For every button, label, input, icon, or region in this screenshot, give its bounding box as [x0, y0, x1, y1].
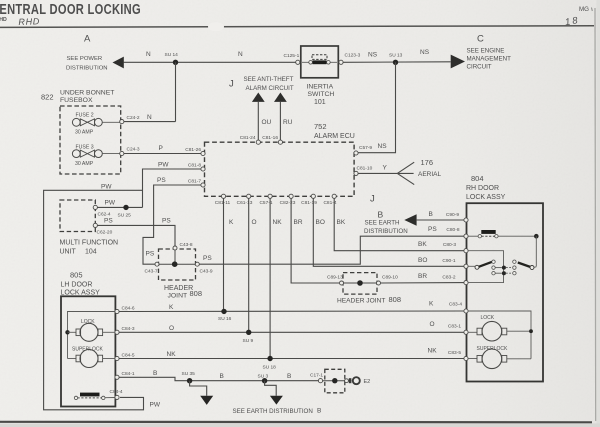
svg-text:C84-3: C84-3	[122, 326, 135, 332]
pin C24-3	[120, 147, 140, 156]
pin C83-1	[448, 324, 468, 335]
LH interior K rail	[65, 312, 115, 359]
svg-text:PS: PS	[104, 217, 113, 224]
svg-text:BK: BK	[418, 241, 427, 248]
pin C84-4	[110, 389, 123, 400]
svg-text:BO: BO	[418, 257, 427, 264]
svg-text:NS: NS	[378, 143, 388, 150]
svg-text:K: K	[169, 304, 174, 311]
svg-text:805: 805	[70, 271, 83, 280]
svg-text:C90-9: C90-9	[446, 212, 459, 218]
svg-text:C83-5: C83-5	[448, 350, 461, 356]
svg-text:C83-4: C83-4	[449, 302, 462, 308]
pin C83-4	[449, 302, 468, 314]
wire BO ECU to RH door	[313, 198, 464, 266]
svg-text:CIRCUIT: CIRCUIT	[467, 64, 492, 71]
svg-text:PS: PS	[203, 255, 212, 262]
ground SU35 branch	[190, 381, 214, 405]
arrow OU to alarm circuit	[252, 93, 272, 141]
svg-text:SWITCH: SWITCH	[308, 91, 335, 98]
svg-text:SEE EARTH DISTRIBUTION: SEE EARTH DISTRIBUTION	[233, 408, 313, 415]
see earth distribution bottom label	[233, 408, 322, 415]
node J see anti-theft alarm	[229, 76, 294, 92]
svg-text:C80-8: C80-8	[446, 227, 459, 233]
svg-text:MANAGEMENT: MANAGEMENT	[467, 56, 512, 63]
svg-text:101: 101	[314, 99, 326, 106]
svg-text:UNDER BONNET: UNDER BONNET	[60, 90, 114, 97]
svg-text:OU: OU	[262, 119, 272, 126]
svg-text:DISTRIBUTION: DISTRIBUTION	[364, 228, 408, 235]
svg-text:C: C	[477, 33, 484, 44]
svg-text:LH DOOR: LH DOOR	[61, 282, 93, 289]
svg-text:B: B	[429, 211, 433, 218]
node C see engine management	[467, 33, 512, 70]
RH interior switch left	[468, 260, 495, 275]
splice SU3	[258, 373, 269, 383]
fuse 3 30A	[72, 145, 120, 168]
wire PW MFU to SU25	[97, 199, 142, 207]
pin C81-7	[188, 179, 205, 188]
arrow to earth distribution	[404, 214, 416, 225]
pin C43-8	[173, 242, 193, 250]
svg-text:Y: Y	[383, 165, 388, 172]
page right edge	[595, 0, 600, 427]
svg-text:O: O	[169, 325, 174, 332]
wire PW left branch	[44, 183, 161, 409]
header rule line	[0, 22, 594, 31]
svg-text:B: B	[317, 408, 321, 415]
svg-text:C81-8: C81-8	[188, 163, 201, 169]
wire O row	[119, 325, 464, 333]
RH interior PS track element	[468, 230, 536, 238]
RH interior switch links	[495, 266, 512, 276]
svg-text:C81-16: C81-16	[262, 135, 278, 141]
aerial 176 symbol	[397, 158, 441, 185]
RH interior BK-BR loop	[468, 251, 504, 283]
wire B earth row	[119, 370, 318, 381]
header joint 2 splice dot	[357, 280, 363, 286]
svg-text:RH DOOR: RH DOOR	[466, 185, 499, 192]
handwritten 18	[564, 15, 580, 28]
svg-text:C81-24: C81-24	[240, 135, 256, 141]
svg-text:18: 18	[564, 15, 580, 28]
svg-text:FUSE 2: FUSE 2	[76, 113, 94, 119]
wire Y to aerial	[358, 165, 397, 174]
pin C81-24	[240, 135, 261, 144]
svg-text:PW: PW	[105, 199, 116, 206]
alarm ECU 752 box	[205, 122, 355, 196]
ECU bottom pin C61-13	[237, 194, 253, 206]
pin C43-7	[145, 262, 160, 274]
svg-text:SU 35: SU 35	[182, 371, 196, 377]
svg-text:B: B	[378, 209, 384, 219]
svg-text:C82-23: C82-23	[280, 200, 296, 206]
svg-text:K: K	[429, 301, 434, 308]
svg-text:LOCK ASSY: LOCK ASSY	[466, 194, 506, 201]
RH door lock assy 804 box	[466, 174, 543, 382]
inertia switch element	[309, 55, 330, 64]
earth stud E2 box	[323, 369, 352, 393]
svg-text:C84-5: C84-5	[122, 352, 135, 358]
node J lower	[370, 194, 375, 205]
svg-text:B: B	[153, 370, 157, 377]
svg-text:C123-3: C123-3	[345, 53, 361, 59]
pin C80-3	[443, 242, 468, 253]
svg-text:PS: PS	[162, 218, 171, 225]
wire PS ECU to header joint	[143, 177, 201, 264]
pin C57-9	[354, 143, 387, 155]
MG page mark	[579, 6, 592, 13]
ECU bottom pin C82-23	[280, 194, 296, 206]
pin C84-5	[115, 352, 135, 360]
svg-text:SEE ENGINE: SEE ENGINE	[467, 48, 505, 55]
ECU bottom pin C81-4	[323, 194, 336, 206]
svg-text:PS: PS	[157, 177, 166, 184]
pin C89-13	[327, 275, 344, 286]
RH interior K rail	[468, 311, 533, 359]
svg-text:HEADER JOINT: HEADER JOINT	[337, 298, 385, 305]
wire O ECU to SU9	[249, 198, 257, 332]
pin C17-1	[310, 372, 323, 383]
page bottom edge	[0, 422, 600, 427]
pin C24-2	[120, 115, 140, 124]
wire BR header joint 2 to RH door	[381, 273, 465, 283]
RH lock motor	[468, 315, 531, 341]
splice SU18	[263, 356, 277, 371]
pin C81-26	[185, 147, 205, 156]
svg-text:SU 16: SU 16	[218, 316, 232, 322]
svg-text:J: J	[370, 194, 375, 205]
svg-text:RHD: RHD	[0, 17, 7, 23]
earth eyelet E2	[349, 377, 370, 385]
inertia switch label	[307, 84, 335, 107]
pin C84-1	[115, 371, 135, 379]
svg-text:C81-4: C81-4	[323, 200, 336, 206]
svg-text:BK: BK	[337, 219, 346, 226]
ECU bottom pin C81-19	[301, 194, 317, 206]
pin C123-3	[339, 53, 361, 65]
svg-text:30 AMP: 30 AMP	[75, 161, 94, 167]
pin C90-1	[442, 258, 468, 268]
svg-text:NS: NS	[420, 49, 430, 56]
svg-text:C84-1: C84-1	[122, 371, 135, 377]
header joint 808 left box	[159, 249, 203, 300]
subtitle RHD printed	[0, 17, 7, 23]
svg-text:P: P	[159, 145, 163, 152]
pin C62-20	[93, 223, 112, 235]
pin C81-16	[262, 135, 282, 144]
svg-text:C84-6: C84-6	[122, 305, 135, 311]
svg-text:O: O	[430, 321, 435, 328]
svg-text:PW: PW	[150, 402, 161, 409]
svg-text:SU 25: SU 25	[118, 213, 132, 219]
svg-text:SEE ANTI-THEFT: SEE ANTI-THEFT	[244, 76, 294, 83]
pin C84-3	[115, 326, 135, 334]
svg-text:822: 822	[41, 93, 54, 102]
svg-text:N: N	[238, 51, 243, 58]
splice SU13	[389, 53, 403, 66]
wire K row	[119, 304, 464, 312]
svg-text:MULTI FUNCTION: MULTI FUNCTION	[60, 240, 119, 247]
svg-text:BO: BO	[316, 219, 325, 226]
svg-text:808: 808	[190, 289, 203, 298]
LH superlock motor	[68, 347, 116, 368]
splice SU16	[218, 309, 232, 322]
svg-text:SEE POWER: SEE POWER	[67, 56, 103, 62]
wire BR ECU to header joint 2	[291, 198, 339, 283]
svg-text:BR: BR	[294, 219, 303, 226]
multi function unit 104 box	[60, 200, 119, 256]
svg-text:C17-1: C17-1	[310, 372, 323, 378]
svg-text:B: B	[220, 373, 224, 380]
pin C83-2	[442, 274, 468, 284]
LH door lock assy 805 box	[61, 271, 116, 407]
svg-text:176: 176	[421, 158, 434, 167]
svg-text:C43-9: C43-9	[200, 269, 213, 275]
svg-text:C81-19: C81-19	[301, 200, 317, 206]
svg-text:FUSEBOX: FUSEBOX	[60, 97, 93, 104]
svg-text:C62-20: C62-20	[97, 229, 113, 235]
svg-text:SU 9: SU 9	[243, 338, 254, 344]
svg-text:C125-1: C125-1	[284, 53, 300, 59]
wire NS drop to ECU C57-9	[358, 62, 396, 152]
svg-text:C24-2: C24-2	[127, 115, 140, 121]
pin C81-10	[354, 166, 373, 176]
wire N from fuse 2	[124, 114, 176, 122]
wire P fuse3 to ECU	[124, 145, 202, 154]
inertia switch 101 box	[301, 46, 339, 78]
svg-text:C61-13: C61-13	[237, 200, 253, 206]
wire NS	[343, 49, 451, 62]
under bonnet fusebox 822	[41, 90, 121, 175]
pin C90-9	[446, 212, 468, 222]
wire N drop to fusebox	[175, 62, 177, 121]
svg-text:E2: E2	[364, 379, 371, 385]
svg-text:J: J	[229, 78, 234, 89]
svg-text:C81-26: C81-26	[185, 147, 201, 153]
node A see power distribution	[66, 33, 108, 71]
wire NK row	[119, 351, 464, 359]
svg-text:C57-9: C57-9	[359, 145, 372, 151]
svg-text:FUSE 3: FUSE 3	[76, 145, 94, 151]
svg-text:C81-10: C81-10	[357, 166, 373, 172]
wire BK ECU to RH door	[334, 198, 464, 250]
svg-text:C43-8: C43-8	[180, 242, 193, 248]
svg-text:C89-13: C89-13	[327, 275, 343, 281]
pin C80-8	[446, 227, 468, 238]
svg-text:NK: NK	[428, 348, 438, 355]
header joint 1 splice dot	[172, 261, 178, 267]
svg-text:CENTRAL DOOR LOCKING: CENTRAL DOOR LOCKING	[0, 2, 141, 18]
LH lock motor	[68, 319, 116, 341]
ground SU3 branch	[265, 381, 283, 405]
arrow to engine management	[451, 55, 465, 69]
svg-text:MG: MG	[579, 6, 589, 13]
svg-text:B: B	[287, 373, 291, 380]
svg-text:ALARM ECU: ALARM ECU	[314, 133, 355, 140]
svg-text:752: 752	[314, 122, 327, 131]
title CENTRAL DOOR LOCKING	[0, 2, 141, 18]
node B see earth distribution upper	[364, 209, 408, 235]
svg-text:C83-1: C83-1	[448, 324, 461, 330]
svg-text:LOCK: LOCK	[481, 315, 495, 321]
splice SU35	[182, 371, 196, 384]
wire PS header joint to RH door	[199, 226, 464, 264]
svg-text:C81-7: C81-7	[188, 179, 201, 185]
svg-text:C24-3: C24-3	[127, 147, 140, 153]
RH interior PS rail junction	[534, 234, 539, 267]
arrow RU to alarm circuit	[274, 93, 293, 141]
wire PS MFU to header joint	[97, 217, 175, 246]
svg-text:SEE EARTH: SEE EARTH	[365, 220, 400, 227]
RH superlock motor	[468, 346, 531, 369]
splice SU25	[118, 205, 132, 219]
svg-text:PW: PW	[101, 183, 112, 190]
svg-text:808: 808	[389, 295, 402, 304]
wire labels RH side	[418, 241, 437, 355]
pin C84-6	[115, 305, 135, 313]
svg-text:K: K	[229, 219, 234, 226]
svg-text:C57-1: C57-1	[259, 200, 272, 206]
svg-text:104: 104	[85, 249, 97, 256]
wire NK ECU to SU18	[270, 198, 282, 358]
svg-text:SU 13: SU 13	[389, 53, 403, 59]
svg-text:N: N	[147, 114, 152, 121]
svg-text:C84-4: C84-4	[110, 389, 123, 395]
svg-text:UNIT: UNIT	[60, 249, 77, 256]
svg-text:30 AMP: 30 AMP	[75, 130, 94, 136]
svg-text:SU 3: SU 3	[258, 373, 269, 379]
svg-text:ALARM CIRCUIT: ALARM CIRCUIT	[246, 85, 294, 92]
svg-text:C80-3: C80-3	[443, 242, 456, 248]
svg-text:C90-1: C90-1	[442, 258, 455, 264]
wire N feed	[124, 51, 298, 62]
svg-text:DISTRIBUTION: DISTRIBUTION	[66, 66, 108, 72]
svg-text:SU 14: SU 14	[165, 52, 179, 58]
pin C43-9	[195, 262, 213, 274]
svg-text:NK: NK	[273, 219, 283, 226]
svg-text:PS: PS	[428, 226, 437, 233]
svg-text:INERTIA: INERTIA	[307, 84, 334, 91]
ECU bottom pin C57-1	[259, 194, 272, 206]
pin C125-1	[284, 53, 300, 64]
svg-text:A: A	[84, 33, 91, 44]
header joint 808 middle box	[337, 273, 401, 305]
svg-text:C83-2: C83-2	[442, 274, 455, 280]
wire B RH door to earth arrow	[417, 211, 464, 220]
wire K ECU to SU16	[224, 198, 235, 311]
svg-text:JOINT: JOINT	[168, 293, 188, 300]
pin C89-10	[377, 275, 399, 286]
splice SU9	[243, 330, 254, 344]
LH interior heater element	[74, 393, 115, 400]
arrow to power distribution	[113, 57, 124, 69]
svg-text:SU 18: SU 18	[263, 365, 277, 371]
RH interior switch right	[513, 260, 537, 275]
svg-text:PS: PS	[146, 251, 155, 258]
fuse 2 30A	[72, 113, 120, 136]
svg-text:PW: PW	[158, 162, 169, 169]
wire PW ECU to SU25	[143, 162, 202, 208]
svg-text:N: N	[146, 51, 151, 58]
svg-text:C81-11: C81-11	[215, 200, 231, 206]
handwritten RHD	[18, 16, 40, 27]
svg-text:AERIAL: AERIAL	[418, 171, 442, 178]
svg-text:C89-10: C89-10	[382, 275, 398, 281]
svg-text:RU: RU	[283, 119, 293, 126]
svg-text:804: 804	[471, 174, 484, 183]
svg-text:C43-7: C43-7	[145, 269, 158, 275]
ECU bottom pin C81-11	[215, 194, 231, 206]
svg-text:RHD: RHD	[18, 16, 40, 27]
pin C83-5	[448, 350, 468, 361]
svg-text:NK: NK	[167, 351, 177, 358]
splice SU14	[165, 52, 179, 65]
pin C81-8	[188, 163, 205, 172]
svg-text:O: O	[252, 219, 257, 226]
pin C62-4	[93, 205, 111, 217]
svg-text:NS: NS	[368, 52, 378, 59]
svg-text:BR: BR	[418, 273, 427, 280]
